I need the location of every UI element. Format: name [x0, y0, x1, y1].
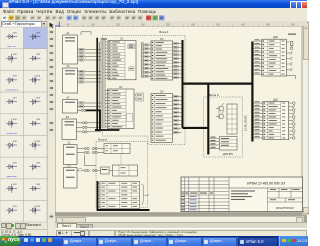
- thick bus A horizontal to right IC column: [183, 82, 253, 84]
- palette symbol r2c2: [30, 54, 41, 60]
- title block right grid: [268, 188, 303, 210]
- system tray: [279, 236, 308, 246]
- svg-text:кСВ: кСВ: [145, 195, 150, 197]
- palette symbol r3c1: [6, 76, 17, 84]
- palette symbol r6c2: [30, 141, 41, 150]
- bus band left (vertical wires): [97, 38, 107, 130]
- IC D1: [108, 38, 136, 80]
- sub-box of D2: [134, 93, 144, 101]
- wires block B1 with connector pairs: [77, 122, 102, 133]
- page: [55, 27, 302, 216]
- palette symbol r5c1: [6, 119, 17, 128]
- block boundary Блок 3: [204, 93, 243, 157]
- small corner label: [288, 34, 296, 35]
- menu bar: [0, 8, 307, 15]
- palette symbol r6c1: [6, 141, 17, 149]
- palette symbol r8c1: [6, 184, 17, 193]
- wires trunk to ДД2 pins: [254, 101, 263, 138]
- stub boxes feeding D3: [144, 44, 151, 77]
- title block left grid: [181, 177, 229, 212]
- IC D2: [108, 86, 135, 129]
- window buttons: [290, 1, 297, 9]
- title bar: [0, 0, 307, 8]
- palette xy status: [0, 229, 47, 237]
- wires block A2 to bus: [78, 70, 102, 83]
- toolbar: [0, 15, 307, 23]
- output circles right of ДД2: [289, 102, 296, 140]
- title block doc number cell: [229, 181, 303, 188]
- wires block C2 with connector pairs: [77, 169, 101, 172]
- module block B1: [62, 116, 77, 140]
- svg-text:имп.стаб: имп.стаб: [8, 46, 17, 48]
- side toolbar icons: [49, 23, 55, 220]
- svg-text:ДД1: ДД1: [273, 36, 278, 39]
- palette symbol r4c1: [6, 97, 17, 103]
- side tool strip bg: [47, 21, 56, 236]
- component palette cells: [0, 27, 47, 222]
- svg-text:450: 450: [266, 23, 271, 26]
- stub boxes D4 to right bus: [173, 95, 182, 133]
- svg-text:300: 300: [191, 23, 196, 26]
- stub boxes D3 to right bus: [173, 42, 182, 78]
- svg-text:250: 250: [166, 23, 171, 26]
- svg-text:ДД2: ДД2: [273, 98, 278, 101]
- svg-text:стабилитроны: стабилитроны: [5, 89, 19, 91]
- palette captions: [5, 46, 19, 178]
- palette symbol r1c1: [6, 32, 17, 38]
- svg-text:Блок 1: Блок 1: [159, 30, 169, 34]
- svg-text:динисторы: динисторы: [7, 176, 18, 178]
- IC D4: [151, 91, 173, 143]
- left palette: [0, 21, 47, 236]
- title block frame: [181, 177, 303, 212]
- quick launch: [24, 238, 60, 244]
- sub-box CM4 of D1: [128, 44, 135, 48]
- canvas bg under page: [55, 21, 307, 236]
- IC D3: [151, 38, 173, 80]
- start button: [0, 236, 21, 246]
- wires block A1 to bus: [78, 32, 102, 61]
- palette combo: [1, 21, 48, 29]
- thick bus vertical V2 (right edge of Блок 1): [182, 40, 184, 128]
- module block C2: [64, 164, 78, 188]
- svg-text:100: 100: [91, 23, 96, 26]
- module block A1: [63, 32, 78, 64]
- wires block A3 to bus: [78, 102, 102, 108]
- inner box upper of Блок 3: [227, 104, 237, 134]
- wires from bracket to T3 rows: [98, 183, 101, 206]
- svg-text:500: 500: [291, 23, 296, 26]
- pin marks right column ДД2: [282, 103, 285, 139]
- table T2 in Блок 6: [113, 165, 138, 176]
- status bar: [55, 228, 307, 237]
- module block A2: [63, 65, 78, 93]
- palette symbol r7c2: [30, 163, 41, 171]
- palette symbol r1c2: [30, 32, 41, 40]
- ruler: [55, 21, 307, 27]
- thick bus vertical right trunk: [251, 42, 253, 142]
- bus between D1 and D3: [142, 42, 144, 78]
- inner box of D2: [126, 114, 132, 121]
- vertical scrollbar: [302, 21, 310, 215]
- IC ДД2: [263, 98, 289, 139]
- task buttons: [62, 237, 97, 246]
- module block A3: [63, 96, 78, 113]
- palette symbol r8c2: [30, 184, 41, 190]
- svg-text:ИРБМ 22-481.80.606 ЭЗ: ИРБМ 22-481.80.606 ЭЗ: [247, 181, 286, 185]
- palette symbol r5c2: [30, 119, 41, 125]
- palette symbol r9c2: [30, 206, 41, 215]
- transistors in Блок 3: [216, 103, 224, 119]
- wires trunk to Блок 3: [209, 137, 219, 149]
- svg-text:350: 350: [216, 23, 221, 26]
- table T3 in Блок 6: [100, 181, 140, 208]
- IC ДД1: [262, 36, 287, 76]
- page tabs: [55, 222, 307, 229]
- svg-text:22-481.80.606: 22-481.80.606: [245, 115, 248, 131]
- thick bracket and bottom bus of Блок 6: [97, 181, 150, 210]
- output symbols right of ДД1: [287, 42, 296, 80]
- module block C1: [64, 141, 78, 164]
- wires bus to D1 pins: [105, 42, 108, 78]
- svg-text:400: 400: [241, 23, 246, 26]
- palette symbol r7c1: [6, 163, 17, 169]
- taskbar: [0, 236, 307, 246]
- palette symbol r9c1: [6, 206, 17, 214]
- palette nav row: [0, 223, 47, 229]
- palette symbol r3c2: [30, 75, 41, 84]
- sub-box PL of D1: [129, 67, 134, 71]
- horizontal scrollbar: [55, 216, 304, 223]
- wires bus to D2 pins: [105, 91, 108, 127]
- title block name cell: [231, 188, 268, 212]
- block boundary Блок 6: [96, 137, 148, 207]
- inner box lower of Блок 3: [220, 137, 238, 156]
- palette symbol r4c2: [30, 97, 41, 105]
- svg-text:Блок 6: Блок 6: [99, 137, 108, 141]
- svg-text:МОНИТОРИНГ: МОНИТОРИНГ: [276, 206, 295, 210]
- svg-text:ДОМ-8РЧ: ДОМ-8РЧ: [223, 154, 234, 156]
- svg-text:Блок 3: Блок 3: [209, 93, 219, 97]
- small box feeding T2: [101, 167, 113, 174]
- wires trunk to ДД1 pins: [254, 39, 262, 74]
- pin marks right column ДД1: [282, 41, 285, 75]
- wires block C1 with connector pairs: [77, 147, 104, 165]
- inner dashed partition in Блок 6: [120, 154, 122, 167]
- toolbar icons: [2, 15, 164, 20]
- block boundary Блок 1: [103, 30, 186, 144]
- svg-text:150: 150: [116, 23, 121, 26]
- thick bus L to Блок 3: [183, 83, 209, 155]
- thick bus from B1 connectors: [86, 110, 120, 130]
- palette symbol r2c1: [6, 54, 17, 63]
- svg-text:200: 200: [141, 23, 146, 26]
- svg-text:анод.блоки: анод.блоки: [7, 133, 17, 135]
- table T1 in Блок 6: [104, 144, 130, 154]
- wire block A3 lower pin with connector pair: [78, 109, 87, 111]
- brace and label right of T3: [142, 184, 150, 205]
